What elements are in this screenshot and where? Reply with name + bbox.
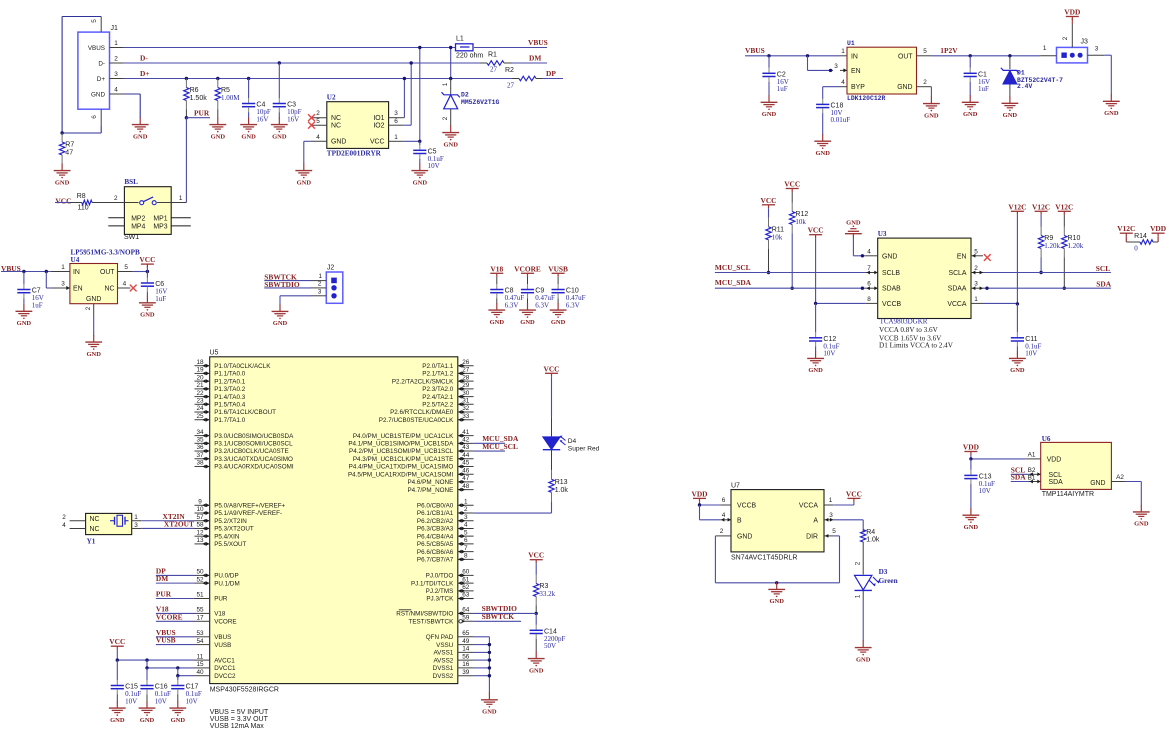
svg-text:39: 39 xyxy=(462,669,470,676)
wire EN U4 xyxy=(46,272,51,289)
capacitor C12 xyxy=(809,332,840,357)
U1 pin 2 xyxy=(917,79,932,87)
svg-text:3: 3 xyxy=(61,280,65,287)
svg-text:VCC: VCC xyxy=(808,226,824,235)
wire VCORE U5 xyxy=(156,620,195,622)
wire MCU_SDA U5 xyxy=(474,442,505,444)
svg-text:47: 47 xyxy=(65,150,73,157)
svg-text:OUT: OUT xyxy=(898,53,913,60)
wire DM to C3 xyxy=(278,63,280,98)
net label VBUS at U5 xyxy=(156,628,176,637)
ground J3 xyxy=(1103,94,1120,117)
svg-text:P6.2/CB2/A2: P6.2/CB2/A2 xyxy=(417,518,454,525)
svg-text:P3.0/UCB0SIMO/UCB0SDA: P3.0/UCB0SIMO/UCB0SDA xyxy=(214,433,294,440)
svg-text:V12C: V12C xyxy=(1117,224,1135,233)
junction DP/D2 xyxy=(449,77,452,80)
svg-text:1.20k: 1.20k xyxy=(1044,242,1060,250)
wire DVCC1 xyxy=(147,660,195,668)
svg-text:GND: GND xyxy=(17,320,32,327)
J3 pin 2 xyxy=(1062,24,1072,47)
svg-text:VDD: VDD xyxy=(1064,8,1080,17)
wire DP to C4 xyxy=(248,79,250,99)
svg-text:10V: 10V xyxy=(155,697,167,705)
svg-text:3: 3 xyxy=(394,110,398,117)
SW1 pin 2 xyxy=(107,195,139,203)
switch SW1 BSL xyxy=(124,178,171,241)
power flag V12C 2 xyxy=(1032,202,1050,215)
wire to C15 xyxy=(116,660,118,680)
svg-text:2: 2 xyxy=(923,79,927,86)
svg-text:6: 6 xyxy=(394,118,398,125)
svg-text:P4.3/PM_UCB1CLK/PM_UCA1STE: P4.3/PM_UCB1CLK/PM_UCA1STE xyxy=(353,456,453,463)
svg-text:D1 Limits VCCA to 2.4V: D1 Limits VCCA to 2.4V xyxy=(879,342,954,350)
U6 pin A2 xyxy=(1111,474,1125,482)
svg-text:VCCA 0.8V to 3.6V: VCCA 0.8V to 3.6V xyxy=(879,326,939,334)
U5 pin 57 P5.2/XT2IN xyxy=(195,514,248,525)
net label VBUS at U4 xyxy=(1,264,21,273)
U5 pin 42 P4.1/PM_UCB1SIMO/PM_UCB1SDA xyxy=(348,437,473,448)
svg-text:BSL: BSL xyxy=(124,178,138,186)
svg-text:V18: V18 xyxy=(490,264,503,273)
ground below C7 xyxy=(16,304,33,327)
svg-text:2: 2 xyxy=(464,506,468,513)
U5 pin 49 VSSU xyxy=(436,638,473,649)
svg-text:GND: GND xyxy=(140,312,155,319)
ground below D2 xyxy=(442,126,459,149)
svg-text:34: 34 xyxy=(196,429,204,436)
svg-text:DVCC1: DVCC1 xyxy=(214,665,236,672)
svg-text:1: 1 xyxy=(464,499,468,506)
wire VCC to VCCA xyxy=(833,502,854,505)
wire VCC to AVCC1 xyxy=(117,650,194,660)
svg-text:GND: GND xyxy=(737,533,752,540)
capacitor C5 xyxy=(413,145,444,170)
U4 pin 4 NC xyxy=(118,280,137,291)
junction C1 xyxy=(969,54,972,57)
svg-text:GND: GND xyxy=(241,133,256,140)
svg-text:52: 52 xyxy=(196,576,204,583)
svg-text:P4.7/PM_NONE: P4.7/PM_NONE xyxy=(407,487,453,494)
svg-text:VCCB: VCCB xyxy=(882,301,902,308)
wire C14 gnd xyxy=(535,639,537,652)
junction C17 xyxy=(176,674,179,677)
power flag VDD at U7 xyxy=(691,489,707,502)
net label DM xyxy=(529,54,541,63)
svg-text:P6.0/CB0/A0: P6.0/CB0/A0 xyxy=(417,503,454,510)
svg-text:R9: R9 xyxy=(1044,235,1053,242)
power flag VCC at U5 xyxy=(109,637,125,650)
junction R9/SCL xyxy=(1039,271,1042,274)
wire C9 gnd xyxy=(527,298,529,303)
wire BYP to C18 xyxy=(823,87,840,99)
U3 pin 8 xyxy=(865,296,877,303)
svg-text:P4.5/PM_UCA1RXD/PM_UCA1SOMI: P4.5/PM_UCA1RXD/PM_UCA1SOMI xyxy=(348,471,454,478)
svg-text:GND: GND xyxy=(1090,480,1105,487)
svg-text:SBWTCK: SBWTCK xyxy=(482,612,515,621)
wire XT2IN xyxy=(141,520,194,522)
capacitor C9 xyxy=(521,284,555,309)
J1 pin 4 xyxy=(110,87,125,95)
ground below C17 xyxy=(169,701,186,724)
svg-text:1: 1 xyxy=(61,264,65,271)
voltage regulator U4 LP5951MG xyxy=(70,249,140,304)
svg-text:8: 8 xyxy=(867,296,871,303)
wire R4 to D3 xyxy=(855,546,864,575)
U5 pin 20 P1.2/TA0.1 xyxy=(195,374,246,385)
wire R10 to SDA xyxy=(1063,258,1065,289)
svg-text:B2: B2 xyxy=(1028,467,1036,474)
wire V12C to VCCA xyxy=(1016,215,1018,304)
Y1 pin 2 xyxy=(62,514,85,521)
U5 pin 7 P6.6/CB6/A6 xyxy=(417,545,474,556)
net label MCU_SDA xyxy=(715,278,752,287)
U6 pin B2 xyxy=(1028,467,1041,476)
wire R3 to SBWTDIO xyxy=(535,606,537,614)
svg-text:VCORE: VCORE xyxy=(156,612,183,621)
power flag VUSB xyxy=(548,264,568,277)
Y1 pin 1 xyxy=(132,514,142,521)
svg-text:1uF: 1uF xyxy=(155,295,166,303)
wire OUT to VCC xyxy=(133,271,148,273)
wire R9 to SCL xyxy=(1040,258,1042,273)
svg-text:7: 7 xyxy=(464,545,468,552)
svg-text:IO2: IO2 xyxy=(373,123,384,130)
wire SDA U6 xyxy=(1011,481,1029,483)
wire to C1 xyxy=(969,56,971,68)
wire VDD to VCCB xyxy=(700,502,721,505)
svg-text:GND: GND xyxy=(140,717,155,724)
svg-text:PU.1/DM: PU.1/DM xyxy=(214,580,240,587)
svg-text:16: 16 xyxy=(462,661,470,668)
svg-text:VDD: VDD xyxy=(963,443,979,452)
wire A to R4 xyxy=(833,520,863,529)
wire PUR to SW1 xyxy=(185,118,187,203)
svg-text:2: 2 xyxy=(114,56,118,63)
ground VSS bus xyxy=(481,693,498,716)
svg-text:6: 6 xyxy=(722,497,726,504)
junction R6/DP xyxy=(185,77,188,80)
svg-text:4: 4 xyxy=(62,522,66,529)
ground below C8 xyxy=(488,303,505,326)
svg-text:4: 4 xyxy=(114,87,118,94)
net label VCC at R8 xyxy=(55,196,71,205)
ground below C3 xyxy=(271,118,288,141)
svg-text:10V: 10V xyxy=(1025,350,1037,358)
wire VCC to D4 xyxy=(551,377,553,437)
svg-text:2.4V: 2.4V xyxy=(1017,83,1033,90)
svg-text:V12C: V12C xyxy=(1055,202,1073,211)
power flag VCC above R12 xyxy=(784,180,800,193)
SW1 pin MP1 xyxy=(171,217,191,219)
resistor R13 xyxy=(549,470,569,501)
svg-text:22: 22 xyxy=(196,390,204,397)
wire SCL xyxy=(983,272,1111,274)
power flag VCC at R3 xyxy=(528,551,544,564)
svg-text:SCLB: SCLB xyxy=(882,270,900,277)
U5 pin 31 P2.5/TA2.2 xyxy=(422,398,473,409)
U5 pin 47 P4.6/PM_NONE xyxy=(407,475,473,486)
svg-text:2: 2 xyxy=(318,281,322,288)
svg-text:R1: R1 xyxy=(488,52,497,59)
U2 pin 4 GND xyxy=(311,134,327,142)
svg-text:VUSB = 3.3V OUT: VUSB = 3.3V OUT xyxy=(210,716,269,723)
wire gnd to U3 pin4 xyxy=(853,237,865,256)
wire C5 to gnd xyxy=(419,159,421,164)
wire to C12 xyxy=(815,303,817,332)
svg-text:P6.3/CB3/A3: P6.3/CB3/A3 xyxy=(417,526,454,533)
svg-text:P3.1/UCB0SOMI/UCB0SCL: P3.1/UCB0SOMI/UCB0SCL xyxy=(214,441,293,448)
resistor R4 xyxy=(861,529,880,546)
wire to C16 xyxy=(146,668,148,680)
svg-text:GND: GND xyxy=(963,111,978,118)
junction C7 xyxy=(22,270,25,273)
svg-text:PJ.1/TDI/TCLK: PJ.1/TDI/TCLK xyxy=(411,580,454,587)
wire V18 to C8 xyxy=(496,277,498,284)
junction R12/SDA xyxy=(791,287,794,290)
net label MCU_SDA at U5 xyxy=(482,434,519,443)
junction C4/DP xyxy=(247,77,250,80)
svg-text:51: 51 xyxy=(196,592,204,599)
svg-text:9: 9 xyxy=(198,499,202,506)
svg-text:GND: GND xyxy=(897,84,912,91)
svg-text:IN: IN xyxy=(851,53,858,60)
svg-text:VCC: VCC xyxy=(109,637,125,646)
svg-text:PU.0/DP: PU.0/DP xyxy=(214,573,239,580)
svg-text:0.01uF: 0.01uF xyxy=(831,116,851,124)
svg-text:J3: J3 xyxy=(1081,39,1089,46)
svg-text:2: 2 xyxy=(442,116,449,120)
U5 pin 30 P2.4/TA2.1 xyxy=(422,390,473,401)
svg-text:R6: R6 xyxy=(190,87,199,94)
svg-text:P4.1/PM_UCB1SIMO/PM_UCB1SDA: P4.1/PM_UCB1SIMO/PM_UCB1SDA xyxy=(348,441,454,448)
svg-text:DP: DP xyxy=(546,69,556,78)
capacitor C11 xyxy=(1011,332,1042,357)
svg-text:2: 2 xyxy=(62,514,66,521)
svg-text:21: 21 xyxy=(196,382,204,389)
svg-text:D+: D+ xyxy=(97,76,106,83)
wire DM U5 xyxy=(156,582,195,584)
wire C15 gnd xyxy=(116,694,118,701)
svg-text:TEST/SBWTCK: TEST/SBWTCK xyxy=(409,619,455,626)
U5 pin 35 P3.1/UCB0SOMI/UCB0SCL xyxy=(195,437,294,448)
svg-text:P1.4/TA0.3: P1.4/TA0.3 xyxy=(214,394,246,401)
svg-text:49: 49 xyxy=(462,638,470,645)
junction IO2/DM xyxy=(410,61,413,64)
net label 1P2V xyxy=(940,46,958,55)
svg-text:MP2: MP2 xyxy=(131,215,145,222)
junction EN xyxy=(829,69,832,72)
junction D1 xyxy=(1008,54,1011,57)
svg-text:4: 4 xyxy=(464,522,468,529)
svg-text:P5.0/A8/VREF+/VEREF+: P5.0/A8/VREF+/VEREF+ xyxy=(214,503,285,510)
resistor R12 xyxy=(790,192,809,234)
svg-text:P1.2/TA0.1: P1.2/TA0.1 xyxy=(214,378,246,385)
U5 pin 41 P4.0/PM_UCB1STE/PM_UCA1CLK xyxy=(353,429,474,440)
ground below C9 xyxy=(519,303,536,326)
svg-text:TMP114AIYMTR: TMP114AIYMTR xyxy=(1042,491,1094,498)
svg-text:6.3V: 6.3V xyxy=(535,301,549,309)
svg-text:P4.0/PM_UCB1STE/PM_UCA1CLK: P4.0/PM_UCB1STE/PM_UCA1CLK xyxy=(353,433,454,440)
svg-text:P1.7/TA1.0: P1.7/TA1.0 xyxy=(214,417,246,424)
wire DP U5 xyxy=(156,574,195,576)
svg-text:1: 1 xyxy=(134,514,138,521)
svg-text:V12C: V12C xyxy=(1032,202,1050,211)
svg-text:P5.2/XT2IN: P5.2/XT2IN xyxy=(214,518,247,525)
U5 pin 11 AVCC1 xyxy=(195,653,236,664)
svg-text:2: 2 xyxy=(316,110,320,117)
U5 pin 16 DVSS1 xyxy=(433,661,474,672)
U3 pin 2 xyxy=(971,265,983,274)
J1 pin 6 shield xyxy=(91,109,101,126)
svg-text:VCC: VCC xyxy=(370,139,385,146)
ground U4 xyxy=(85,335,102,358)
svg-text:0: 0 xyxy=(1134,244,1138,252)
svg-text:10V: 10V xyxy=(125,697,137,705)
svg-text:23: 23 xyxy=(196,398,204,405)
U5 pin 27 P2.1/TA1.2 xyxy=(422,367,473,378)
svg-text:SDA: SDA xyxy=(1011,473,1026,482)
svg-text:DM: DM xyxy=(529,54,541,63)
svg-text:50V: 50V xyxy=(544,642,556,650)
junction VSS rows xyxy=(488,643,491,678)
U5 pin 9 P5.0/A8/VREF+/VEREF+ xyxy=(195,499,286,510)
zener diode D2 xyxy=(442,92,500,109)
net label SBWTCK at U5 xyxy=(482,612,515,621)
svg-text:GND: GND xyxy=(171,717,186,724)
svg-text:10V: 10V xyxy=(823,350,835,358)
svg-text:VCORE: VCORE xyxy=(514,264,541,273)
wire C11 gnd xyxy=(1016,347,1018,352)
wire J1 shield top xyxy=(62,17,101,134)
net label SCL at U6 xyxy=(1011,465,1025,474)
net label SBWTCK at J2 xyxy=(264,272,297,281)
ground below C12 xyxy=(807,351,824,374)
wire VCORE to C9 xyxy=(527,277,529,284)
wire to C6 xyxy=(146,272,148,278)
junction C16 xyxy=(145,666,148,669)
net label SDA xyxy=(1096,280,1111,289)
wire U2 gnd xyxy=(304,141,311,164)
wire SCL U6 xyxy=(1011,473,1029,475)
U2 pin 6 IO2 xyxy=(389,118,404,125)
capacitor C3 xyxy=(273,98,302,123)
wire C2 gnd xyxy=(768,82,770,96)
net label SBWTDIO at J2 xyxy=(264,280,300,289)
U5 pin 26 P2.0/TA1.1 xyxy=(422,359,473,370)
svg-text:2: 2 xyxy=(855,561,862,565)
wire C12 gnd xyxy=(815,347,817,352)
svg-text:56: 56 xyxy=(462,653,470,660)
svg-text:GND: GND xyxy=(964,524,979,531)
svg-text:1: 1 xyxy=(829,497,833,504)
junction VCCB/C12 xyxy=(814,302,817,305)
wire VCC to R8 xyxy=(55,202,70,204)
svg-text:NC: NC xyxy=(90,526,100,533)
svg-text:GND: GND xyxy=(808,367,823,374)
no-connect X on EN xyxy=(984,254,991,261)
svg-text:R11: R11 xyxy=(772,226,784,233)
temp sensor U6 TMP114AIYMTR xyxy=(1041,435,1112,498)
svg-text:GND: GND xyxy=(55,179,70,186)
svg-text:1uF: 1uF xyxy=(978,85,989,93)
svg-text:P6.6/CB6/A6: P6.6/CB6/A6 xyxy=(417,549,454,556)
J2 pin 2 xyxy=(311,281,326,288)
svg-text:B: B xyxy=(737,517,742,524)
svg-text:VCCB: VCCB xyxy=(737,503,757,510)
svg-text:2: 2 xyxy=(720,528,724,535)
junction SDAA xyxy=(985,287,988,290)
svg-text:RST/NMI/SBWTDIO: RST/NMI/SBWTDIO xyxy=(396,611,453,618)
svg-text:P6.4/CB4/A4: P6.4/CB4/A4 xyxy=(417,533,454,540)
J1 pin 5 shield xyxy=(91,17,101,33)
U5 pin 61 PJ.1/TDI/TCLK xyxy=(411,576,474,587)
svg-text:D2: D2 xyxy=(461,92,469,99)
svg-text:VBUS: VBUS xyxy=(88,45,105,52)
svg-text:DIR: DIR xyxy=(806,533,818,540)
svg-text:1P2V: 1P2V xyxy=(940,46,958,55)
svg-text:GND: GND xyxy=(856,656,871,663)
power flag V18 xyxy=(490,264,503,277)
wire DM R1 to label xyxy=(512,62,547,64)
ground below C11 xyxy=(1009,351,1026,374)
svg-text:R2: R2 xyxy=(505,67,514,74)
svg-text:IO1: IO1 xyxy=(373,115,384,122)
U2 pin 1 VCC xyxy=(389,134,404,142)
svg-text:12: 12 xyxy=(196,529,204,536)
svg-text:15: 15 xyxy=(196,661,204,668)
svg-text:VUSB: VUSB xyxy=(214,642,231,649)
U1 pin 1 xyxy=(840,48,847,56)
wire MCU_SDA xyxy=(715,287,866,289)
U5 pin 8 P6.7/CB7/A7 xyxy=(417,553,474,564)
svg-text:PJ.2/TMS: PJ.2/TMS xyxy=(426,588,454,595)
svg-text:AVCC1: AVCC1 xyxy=(214,657,235,664)
wire C4 to gnd xyxy=(248,112,250,118)
wire R5 to gnd xyxy=(217,110,219,119)
svg-text:3: 3 xyxy=(1095,46,1099,53)
wire SBWTCK J2 xyxy=(264,280,311,282)
U7 pin 6 xyxy=(720,497,731,505)
junction C13 xyxy=(969,457,972,460)
U5 pin 14 AVSS1 xyxy=(433,646,473,657)
wire C1 gnd xyxy=(969,82,971,96)
U5 pin 19 P1.1/TA0.0 xyxy=(195,367,246,378)
junction C6 xyxy=(146,270,149,273)
svg-text:SW1: SW1 xyxy=(124,234,139,241)
power flag VCC above C12 xyxy=(808,226,824,239)
wire to D1 xyxy=(1009,56,1011,69)
svg-text:VCCA: VCCA xyxy=(947,301,967,308)
wire VBUS to U1 xyxy=(745,55,840,57)
svg-text:1: 1 xyxy=(319,273,323,280)
svg-text:GND: GND xyxy=(443,141,458,148)
svg-text:5: 5 xyxy=(316,118,320,125)
svg-text:J1: J1 xyxy=(111,25,119,32)
svg-text:PUR: PUR xyxy=(194,109,210,118)
power flag V12C 1 xyxy=(1008,202,1026,215)
svg-text:P2.7/UCB0STE/UCA0CLK: P2.7/UCB0STE/UCA0CLK xyxy=(379,417,454,424)
svg-text:1: 1 xyxy=(442,82,449,86)
U5 pin 48 P4.7/PM_NONE xyxy=(407,483,473,494)
svg-text:4: 4 xyxy=(722,512,726,519)
junction U7 gnd xyxy=(775,581,778,584)
wire C18 gnd xyxy=(822,113,824,135)
svg-text:57: 57 xyxy=(196,514,204,521)
wire IO2 to DM xyxy=(404,63,412,125)
svg-text:R10: R10 xyxy=(1068,235,1081,242)
net label DP at U5 xyxy=(156,566,166,575)
J2 pin 3 xyxy=(311,288,326,295)
